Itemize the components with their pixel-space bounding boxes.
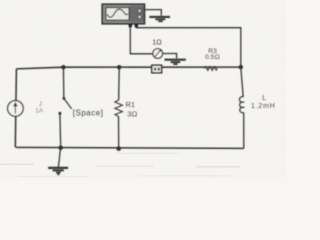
wire: left rail xyxy=(15,69,16,147)
node: top rail / switch junction xyxy=(61,65,65,69)
resistor R3 xyxy=(204,67,217,71)
node: bottom rail / R1 junction xyxy=(116,146,121,151)
label J 1A xyxy=(35,101,44,115)
wire: scope ground terminal to ground symbol xyxy=(145,10,162,16)
wire: bottom rail xyxy=(16,147,244,148)
resistor 1Ω (circle symbol) xyxy=(153,49,163,59)
resistor R1 xyxy=(115,67,123,148)
label R1 3Ω xyxy=(126,100,138,119)
scan noise texture xyxy=(0,0,286,178)
current source J 1A xyxy=(8,101,24,117)
ground (top, right of scope) xyxy=(149,17,170,21)
node: bottom rail / switch-ground junction xyxy=(58,145,63,150)
wire: 1Ω to middle ground xyxy=(163,54,177,59)
wire: scope channel B down and right to L branch xyxy=(136,26,241,67)
oscilloscope xyxy=(102,4,144,27)
scan smudge artifacts xyxy=(0,153,240,177)
node: rail / scope-B / L junction xyxy=(239,65,243,69)
wire: top rail xyxy=(16,67,240,69)
ground (middle) xyxy=(165,60,186,64)
label R3 0.5Ω xyxy=(205,48,220,61)
label L 1.2mH xyxy=(251,95,276,110)
node: top rail / R1 junction xyxy=(117,65,121,69)
switch [Space] xyxy=(58,67,71,147)
ground (bottom) xyxy=(48,148,68,174)
wire: scope channel A down to 1 ohm sensor xyxy=(130,26,153,54)
ammeter box on rail xyxy=(152,65,162,73)
inductor L xyxy=(239,67,243,148)
